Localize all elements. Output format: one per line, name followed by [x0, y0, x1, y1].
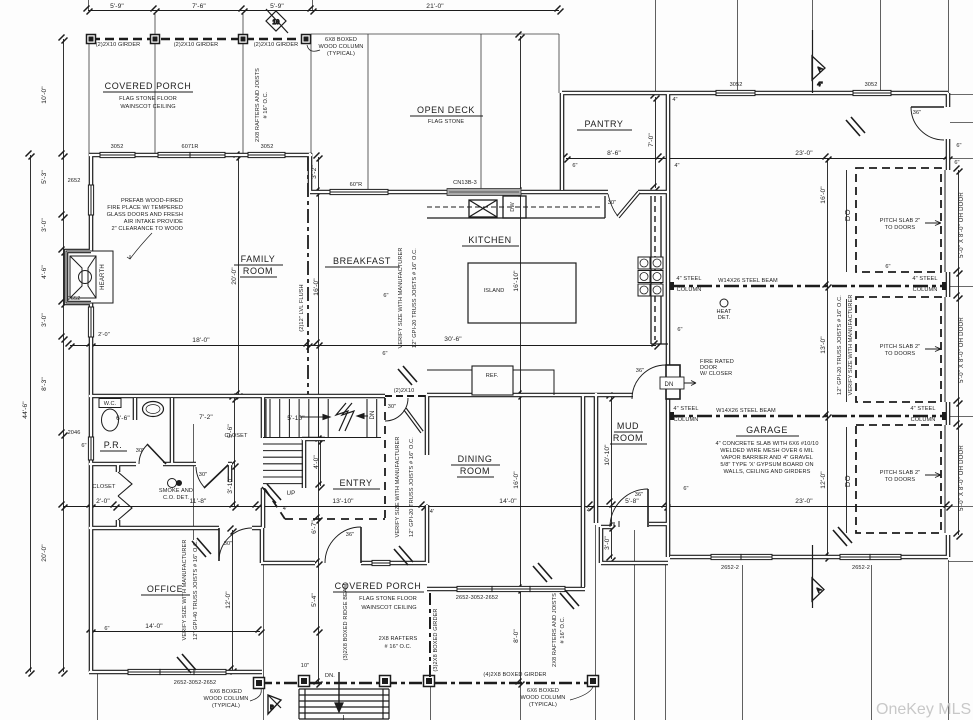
svg-text:(4)2X8 BOXED GIRDER: (4)2X8 BOXED GIRDER	[483, 672, 546, 678]
toilet	[99, 399, 121, 408]
svg-text:13'-0": 13'-0"	[820, 336, 827, 354]
svg-text:30": 30"	[136, 448, 145, 454]
svg-text:VERIFY SIZE WITH MANUFACTURER: VERIFY SIZE WITH MANUFACTURER	[848, 294, 854, 395]
svg-text:30": 30"	[608, 200, 617, 206]
svg-text:2652: 2652	[68, 296, 81, 302]
svg-text:4": 4"	[674, 163, 679, 169]
svg-text:16'-0": 16'-0"	[820, 186, 827, 204]
svg-text:2652-2: 2652-2	[852, 565, 870, 571]
svg-text:10": 10"	[301, 663, 310, 669]
svg-text:13'-10": 13'-10"	[332, 498, 354, 505]
svg-text:4" STEEL: 4" STEEL	[912, 276, 937, 282]
svg-text:4'-6": 4'-6"	[41, 265, 48, 279]
bifold closet doors	[118, 472, 132, 520]
svg-text:DINING: DINING	[458, 454, 493, 464]
svg-text:CLOSET: CLOSET	[93, 484, 116, 490]
svg-text:(2)2X10 GIRDER: (2)2X10 GIRDER	[174, 42, 219, 48]
svg-text:3'-0": 3'-0"	[41, 313, 48, 327]
svg-text:FAMILY: FAMILY	[241, 254, 276, 264]
svg-text:6": 6"	[383, 293, 388, 299]
svg-text:W14X26 STEEL BEAM: W14X26 STEEL BEAM	[718, 278, 778, 284]
svg-text:(TYPICAL): (TYPICAL)	[529, 702, 557, 708]
svg-text:3052: 3052	[730, 82, 743, 88]
svg-text:18'-0": 18'-0"	[192, 337, 210, 344]
svg-text:(3)2X8 BOXED RIDGE BEAM: (3)2X8 BOXED RIDGE BEAM	[343, 583, 349, 660]
svg-text:5'-10": 5'-10"	[287, 415, 305, 422]
svg-text:3052: 3052	[261, 144, 274, 150]
svg-text:(2)2X10 GIRDER: (2)2X10 GIRDER	[96, 42, 141, 48]
svg-text:3052: 3052	[111, 144, 124, 150]
walls	[66, 93, 948, 672]
sink	[143, 402, 164, 417]
svg-text:DN: DN	[370, 410, 376, 419]
svg-text:12" GPI-20 TRUSS JOISTS # 16": 12" GPI-20 TRUSS JOISTS # 16" O.C.	[412, 248, 418, 348]
svg-text:REF.: REF.	[486, 373, 499, 379]
svg-text:DO: DO	[843, 209, 852, 221]
svg-text:OPEN DECK: OPEN DECK	[417, 105, 475, 115]
svg-text:TO DOORS: TO DOORS	[885, 225, 916, 231]
svg-text:3'-0": 3'-0"	[604, 536, 611, 550]
svg-text:6X8 BOXED: 6X8 BOXED	[325, 37, 357, 43]
svg-text:4" CONCRETE SLAB WITH 6X6 #10/: 4" CONCRETE SLAB WITH 6X6 #10/10	[715, 441, 818, 447]
entry angled door	[405, 409, 422, 432]
smoke detector	[168, 479, 177, 488]
svg-text:W14X26 STEEL BEAM: W14X26 STEEL BEAM	[716, 408, 776, 414]
svg-text:P.R.: P.R.	[104, 440, 123, 450]
svg-text:16'-0": 16'-0"	[513, 471, 520, 489]
section markers	[266, 9, 825, 714]
svg-text:4" STEEL: 4" STEEL	[673, 406, 698, 412]
svg-text:36": 36"	[346, 532, 355, 538]
sliding door CN13B-3	[447, 189, 521, 196]
svg-text:(TYPICAL): (TYPICAL)	[327, 51, 355, 57]
svg-text:PREFAB WOOD-FIRED: PREFAB WOOD-FIRED	[121, 198, 183, 204]
refrigerator and counter	[427, 370, 554, 395]
svg-text:16'-10": 16'-10"	[513, 270, 520, 292]
svg-text:2'-0": 2'-0"	[98, 332, 110, 338]
porch steps	[299, 672, 389, 719]
svg-text:KITCHEN: KITCHEN	[468, 235, 511, 245]
svg-text:3'-0": 3'-0"	[41, 218, 48, 232]
svg-text:DET.: DET.	[718, 315, 731, 321]
svg-text:6X6 BOXED: 6X6 BOXED	[527, 688, 559, 694]
staircase	[263, 399, 381, 484]
svg-text:7'-6": 7'-6"	[192, 3, 206, 10]
svg-text:6071R: 6071R	[182, 144, 199, 150]
svg-text:COLUMN: COLUMN	[913, 287, 938, 293]
svg-text:36": 36"	[913, 110, 922, 116]
svg-text:ROOM: ROOM	[243, 266, 273, 276]
svg-text:4': 4'	[283, 506, 287, 512]
svg-text:C.O. DET.: C.O. DET.	[163, 495, 189, 501]
svg-text:WELDED WIRE MESH OVER 6 MIL: WELDED WIRE MESH OVER 6 MIL	[720, 448, 813, 454]
svg-text:W/ CLOSER: W/ CLOSER	[700, 371, 732, 377]
svg-text:CLOSET: CLOSET	[225, 433, 248, 439]
svg-text:5'-0" X 8'-0" OH DOOR: 5'-0" X 8'-0" OH DOOR	[959, 192, 965, 258]
svg-text:FLAG STONE: FLAG STONE	[428, 119, 465, 125]
svg-text:5'-3": 5'-3"	[41, 170, 48, 184]
hearth fireplace	[66, 251, 113, 303]
svg-text:3'-10": 3'-10"	[227, 476, 234, 494]
svg-text:VERIFY SIZE WITH MANUFACTURER: VERIFY SIZE WITH MANUFACTURER	[395, 436, 401, 537]
svg-text:4': 4'	[587, 508, 591, 514]
svg-text:VERIFY SIZE WITH MANUFACTURER: VERIFY SIZE WITH MANUFACTURER	[182, 539, 188, 640]
doors	[139, 107, 944, 563]
svg-text:60"R: 60"R	[350, 182, 363, 188]
svg-text:2652-3052-2652: 2652-3052-2652	[174, 680, 216, 686]
svg-text:PITCH SLAB 2": PITCH SLAB 2"	[880, 344, 921, 350]
svg-text:MUD: MUD	[617, 421, 639, 431]
svg-text:4': 4'	[430, 509, 434, 515]
svg-text:20'-0": 20'-0"	[41, 544, 48, 562]
svg-text:PITCH SLAB 2": PITCH SLAB 2"	[880, 218, 921, 224]
svg-text:6": 6"	[104, 626, 109, 632]
svg-text:4'-0": 4'-0"	[313, 455, 320, 469]
svg-text:PANTRY: PANTRY	[585, 119, 624, 129]
svg-text:23'-0": 23'-0"	[795, 498, 813, 505]
svg-text:30": 30"	[199, 472, 208, 478]
svg-text:WAINSCOT CEILING: WAINSCOT CEILING	[361, 605, 416, 611]
svg-text:DN.: DN.	[325, 673, 335, 679]
svg-text:2046: 2046	[68, 430, 81, 436]
svg-text:2X8 RAFTERS AND JOISTS: 2X8 RAFTERS AND JOISTS	[255, 68, 261, 142]
svg-text:12'-0": 12'-0"	[820, 471, 827, 489]
svg-text:4" STEEL: 4" STEEL	[910, 406, 935, 412]
svg-text:2652-3052-2652: 2652-3052-2652	[456, 595, 498, 601]
svg-text:44'-6": 44'-6"	[22, 401, 29, 419]
svg-text:W.C.: W.C.	[104, 401, 117, 407]
svg-text:12" GPI-20 TRUSS JOISTS # 16": 12" GPI-20 TRUSS JOISTS # 16" O.C.	[837, 295, 843, 395]
heat detector	[720, 299, 728, 307]
svg-text:UP: UP	[287, 491, 296, 497]
svg-text:COLUMN: COLUMN	[674, 417, 699, 423]
svg-text:(2)12" LVL FLUSH: (2)12" LVL FLUSH	[299, 284, 305, 331]
svg-text:(3)2X8 BOXED GIRDER: (3)2X8 BOXED GIRDER	[433, 608, 439, 671]
svg-text:SMOKE AND: SMOKE AND	[159, 488, 193, 494]
svg-text:36": 36"	[636, 368, 645, 374]
windows	[88, 90, 901, 674]
svg-text:2X8 RAFTERS AND JOISTS: 2X8 RAFTERS AND JOISTS	[552, 593, 558, 667]
svg-text:# 16" O.C.: # 16" O.C.	[263, 91, 269, 118]
svg-text:2X8 RAFTERS: 2X8 RAFTERS	[379, 636, 418, 642]
kitchen counters	[427, 196, 668, 344]
svg-text:OFFICE: OFFICE	[147, 584, 183, 594]
svg-text:12" GPI-20 TRUSS JOISTS # 16": 12" GPI-20 TRUSS JOISTS # 16" O.C.	[409, 437, 415, 537]
svg-text:7'-2": 7'-2"	[199, 414, 213, 421]
svg-text:WOOD COLUMN: WOOD COLUMN	[204, 696, 249, 702]
svg-text:23'-0": 23'-0"	[795, 150, 813, 157]
svg-text:ENTRY: ENTRY	[339, 478, 372, 488]
svg-text:14'-0": 14'-0"	[499, 498, 517, 505]
svg-text:6": 6"	[885, 264, 890, 270]
svg-text:11'-8": 11'-8"	[190, 498, 207, 505]
svg-text:GLASS DOORS AND FRESH: GLASS DOORS AND FRESH	[107, 212, 183, 218]
svg-text:6": 6"	[683, 486, 688, 492]
svg-text:FIRE PLACE W/ TEMPERED: FIRE PLACE W/ TEMPERED	[107, 205, 183, 211]
range	[638, 257, 663, 296]
svg-text:WOOD COLUMN: WOOD COLUMN	[521, 695, 566, 701]
svg-text:6'-7": 6'-7"	[311, 520, 318, 534]
svg-text:DW: DW	[510, 202, 516, 212]
svg-text:WOOD COLUMN: WOOD COLUMN	[319, 44, 364, 50]
svg-text:8'-6": 8'-6"	[607, 150, 621, 157]
svg-text:(2)2X10: (2)2X10	[394, 388, 415, 394]
svg-text:16'-0": 16'-0"	[313, 278, 320, 296]
svg-text:COLUMN: COLUMN	[677, 287, 702, 293]
svg-text:3052: 3052	[865, 82, 878, 88]
svg-text:6": 6"	[572, 163, 577, 169]
svg-text:HEARTH: HEARTH	[100, 264, 106, 290]
svg-text:8'-3": 8'-3"	[41, 377, 48, 391]
svg-text:10'-10": 10'-10"	[604, 444, 611, 466]
svg-text:5'-8": 5'-8"	[625, 498, 639, 505]
svg-text:B: B	[270, 705, 274, 711]
svg-text:30": 30"	[224, 541, 233, 547]
svg-text:4": 4"	[817, 82, 822, 88]
svg-text:10'-0": 10'-0"	[41, 86, 48, 104]
svg-text:DN: DN	[664, 382, 673, 388]
pantry corner door	[618, 192, 639, 217]
svg-text:21'-0": 21'-0"	[426, 3, 444, 10]
svg-text:TO DOORS: TO DOORS	[885, 477, 916, 483]
svg-text:ROOM: ROOM	[460, 466, 490, 476]
svg-text:5'-9": 5'-9"	[110, 3, 124, 10]
svg-text:12" GPI-40 TRUSS JOISTS # 16": 12" GPI-40 TRUSS JOISTS # 16" O.C.	[193, 540, 199, 640]
svg-text:# 16" O.C.: # 16" O.C.	[560, 616, 566, 643]
svg-text:2652: 2652	[68, 178, 81, 184]
svg-text:WAINSCOT CEILING: WAINSCOT CEILING	[120, 104, 175, 110]
svg-text:# 16" O.C.: # 16" O.C.	[385, 644, 412, 650]
mud stoop step	[614, 521, 619, 527]
svg-text:5'-9": 5'-9"	[270, 3, 284, 10]
svg-text:TO DOORS: TO DOORS	[885, 351, 916, 357]
svg-text:AIR INTAKE PROVIDE: AIR INTAKE PROVIDE	[124, 219, 183, 225]
svg-text:2652-2: 2652-2	[721, 565, 739, 571]
svg-text:2" CLEARANCE TO WOOD: 2" CLEARANCE TO WOOD	[111, 226, 183, 232]
svg-text:WALLS, CEILING AND GIRDERS: WALLS, CEILING AND GIRDERS	[724, 469, 811, 475]
svg-text:VERIFY SIZE WITH MANUFACTURER: VERIFY SIZE WITH MANUFACTURER	[398, 247, 404, 348]
svg-text:ISLAND: ISLAND	[484, 288, 505, 294]
svg-text:ROOM: ROOM	[613, 433, 643, 443]
svg-text:10: 10	[272, 20, 280, 26]
svg-text:8'-0": 8'-0"	[513, 629, 520, 643]
svg-text:FLAG STONE FLOOR: FLAG STONE FLOOR	[359, 596, 417, 602]
svg-text:COVERED PORCH: COVERED PORCH	[105, 81, 192, 91]
svg-text:4" STEEL: 4" STEEL	[676, 276, 701, 282]
svg-text:5'-0" X 8'-0" OH DOOR: 5'-0" X 8'-0" OH DOOR	[959, 317, 965, 383]
break marks	[177, 117, 865, 673]
svg-text:DO: DO	[843, 475, 852, 487]
svg-text:6": 6"	[954, 160, 959, 166]
svg-text:14'-0": 14'-0"	[145, 623, 163, 630]
svg-text:3'-2": 3'-2"	[311, 165, 318, 179]
svg-text:OneKey MLS: OneKey MLS	[876, 701, 971, 718]
svg-text:(TYPICAL): (TYPICAL)	[212, 703, 240, 709]
svg-text:7'-0": 7'-0"	[648, 133, 655, 147]
svg-text:CN13B-3: CN13B-3	[453, 180, 477, 186]
svg-text:GARAGE: GARAGE	[746, 425, 788, 435]
svg-text:5/8" TYPE 'X' GYPSUM BOARD ON: 5/8" TYPE 'X' GYPSUM BOARD ON	[720, 462, 813, 468]
svg-text:36": 36"	[635, 492, 644, 498]
svg-text:30'-6": 30'-6"	[444, 336, 462, 343]
svg-text:30": 30"	[388, 404, 397, 410]
svg-text:5'-0" X 8'-0" OH DOOR: 5'-0" X 8'-0" OH DOOR	[959, 445, 965, 511]
svg-text:2'-0": 2'-0"	[96, 498, 110, 505]
svg-text:6": 6"	[956, 143, 961, 149]
svg-text:5'-4": 5'-4"	[311, 593, 318, 607]
svg-text:(2)2X10 GIRDER: (2)2X10 GIRDER	[254, 42, 299, 48]
svg-text:6": 6"	[382, 351, 387, 357]
svg-text:12'-0": 12'-0"	[225, 591, 232, 609]
island	[468, 263, 576, 323]
svg-text:FLAG STONE FLOOR: FLAG STONE FLOOR	[119, 96, 177, 102]
svg-text:BREAKFAST: BREAKFAST	[333, 256, 391, 266]
svg-text:20'-0": 20'-0"	[231, 267, 238, 285]
svg-text:4": 4"	[672, 97, 677, 103]
svg-text:VAPOR BARRIER AND 4" GRAVEL: VAPOR BARRIER AND 4" GRAVEL	[721, 455, 813, 461]
svg-text:6": 6"	[677, 327, 682, 333]
svg-text:6X6 BOXED: 6X6 BOXED	[210, 689, 242, 695]
svg-text:6": 6"	[81, 443, 86, 449]
svg-text:PITCH SLAB 2": PITCH SLAB 2"	[880, 470, 921, 476]
svg-text:6'-6": 6'-6"	[116, 415, 130, 422]
svg-text:COLUMN: COLUMN	[911, 417, 936, 423]
